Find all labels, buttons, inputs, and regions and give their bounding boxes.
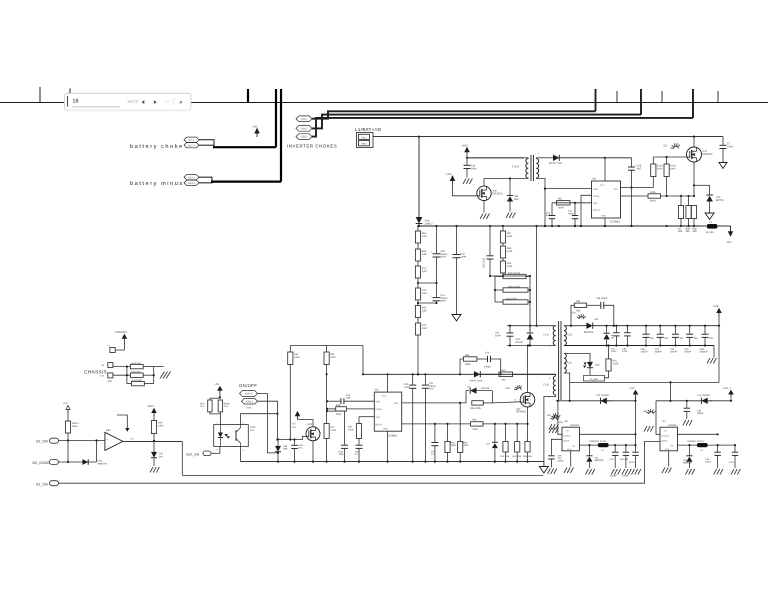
ground C7 xyxy=(719,163,727,169)
svg-text:X51: X51 xyxy=(547,414,552,417)
svg-text:434K: 434K xyxy=(507,250,513,253)
resistor R17 xyxy=(210,397,221,399)
wire W2 bottom xyxy=(59,442,661,484)
resistor R62 xyxy=(459,402,461,404)
IC N2 UC3844 xyxy=(374,392,401,431)
svg-text:ON/Off: ON/Off xyxy=(563,440,570,443)
IC N9 UC3843 xyxy=(592,181,621,218)
toolbar input underline xyxy=(73,106,121,108)
svg-text:Comp: Comp xyxy=(376,408,383,411)
wire T16 pins xyxy=(527,157,529,160)
svg-text:R61: R61 xyxy=(451,442,456,445)
wire N9 pin2 comp xyxy=(581,195,592,226)
svg-text:X22: X22 xyxy=(663,145,668,148)
resistor R124 xyxy=(503,300,528,304)
svg-text:UR1: UR1 xyxy=(253,126,259,129)
svg-text:R106: R106 xyxy=(650,191,656,194)
resistor R47 xyxy=(499,372,513,377)
svg-text:X53: X53 xyxy=(506,387,511,390)
resistor R58 xyxy=(472,401,484,405)
capacitor C50 xyxy=(436,226,438,253)
svg-text:51R5: 51R5 xyxy=(657,167,663,170)
svg-text:100K: 100K xyxy=(348,428,354,431)
corona X51 xyxy=(551,415,554,418)
resistor R42 xyxy=(516,424,518,442)
svg-text:KB-2: KB-2 xyxy=(361,143,367,146)
wire BC_GOOD xyxy=(59,461,83,463)
svg-text:UC3844: UC3844 xyxy=(387,435,397,438)
svg-text:R40: R40 xyxy=(473,419,478,422)
svg-text:23K7: 23K7 xyxy=(422,235,428,238)
svg-text:22K7: 22K7 xyxy=(422,270,428,273)
resistor R41 xyxy=(505,424,507,442)
wire T16-A return xyxy=(540,179,545,227)
svg-text:S1_ON: S1_ON xyxy=(36,482,48,486)
resistor R25 xyxy=(608,346,610,359)
ground return rail xyxy=(713,346,715,358)
wire tick x40 xyxy=(39,87,41,103)
svg-text:100n: 100n xyxy=(346,397,352,400)
resistor R67 xyxy=(502,226,504,231)
wire reg1 input xyxy=(556,400,636,402)
svg-text:100N: 100N xyxy=(568,213,574,216)
svg-text:MBR150: MBR150 xyxy=(683,462,693,465)
svg-text:C38: C38 xyxy=(641,348,646,351)
wire bulk rail xyxy=(417,225,700,227)
resistor R38 xyxy=(327,408,336,410)
corona X24 xyxy=(577,316,580,319)
inductor L3 xyxy=(707,224,718,229)
wire HV to primary xyxy=(536,226,538,326)
corona X50 xyxy=(550,417,553,420)
wire HV rail from KB xyxy=(373,136,723,138)
transistor V2 xyxy=(306,427,320,441)
svg-text:GND: GND xyxy=(383,428,388,431)
capacitor C28 xyxy=(631,158,633,167)
svg-text:N.A.: N.A. xyxy=(247,406,252,409)
svg-text:1BB: 1BB xyxy=(283,448,288,451)
resistor R43 xyxy=(525,442,530,453)
svg-text:L1/BAT+/ID: L1/BAT+/ID xyxy=(355,127,382,132)
capacitor C67 xyxy=(509,326,511,333)
capacitor C64 xyxy=(614,445,616,452)
svg-text:10K0: 10K0 xyxy=(670,167,676,170)
svg-text:N26: N26 xyxy=(595,364,600,367)
net 400V xyxy=(730,226,732,235)
wire N9 out xyxy=(621,187,654,189)
wire bus2 riser xyxy=(640,89,642,115)
svg-text:Vref: Vref xyxy=(376,416,381,419)
resistor R95 xyxy=(417,300,419,306)
svg-text:C63: C63 xyxy=(299,444,304,447)
wire reg1 onoff stub from W1 xyxy=(542,474,544,476)
svg-text:R38: R38 xyxy=(336,404,341,407)
svg-text:N.A.: N.A. xyxy=(250,429,255,432)
svg-text:2K94: 2K94 xyxy=(473,428,479,431)
toolbar text cursor xyxy=(67,96,69,107)
ground N4 xyxy=(668,451,670,467)
wire V22 drain xyxy=(527,346,529,393)
svg-text:C40 2N2: C40 2N2 xyxy=(483,258,486,268)
svg-text:5/272: 5/272 xyxy=(128,99,139,104)
svg-text:STB: STB xyxy=(108,380,113,383)
wire battery-choke riser x276 xyxy=(275,89,277,147)
svg-text:100n: 100n xyxy=(339,453,345,456)
svg-text:N.A.: N.A. xyxy=(299,447,304,450)
resistor R105 xyxy=(664,164,669,177)
svg-text:UC3843: UC3843 xyxy=(610,221,620,224)
wire output rail xyxy=(593,325,719,327)
wire K3N-2 run xyxy=(258,394,279,453)
svg-text:2K94: 2K94 xyxy=(336,413,342,416)
svg-text:23K7: 23K7 xyxy=(422,253,428,256)
svg-text:25V: 25V xyxy=(709,337,714,340)
wire T_ON to V40 gate xyxy=(453,184,478,196)
resistor R34 xyxy=(324,352,329,365)
svg-text:+10V: +10V xyxy=(462,144,469,147)
svg-text:220uF: 220uF xyxy=(705,461,712,464)
svg-text:N5-1: N5-1 xyxy=(106,429,112,432)
svg-text:C44: C44 xyxy=(431,451,436,454)
wire snubber right leg xyxy=(529,276,531,332)
capacitor C42 xyxy=(412,374,414,384)
wire V41 drain xyxy=(693,137,695,147)
capacitor C48r xyxy=(717,445,719,452)
svg-text:3R5: 3R5 xyxy=(678,230,683,233)
svg-text:470N: 470N xyxy=(622,350,628,353)
svg-text:BYV27-200: BYV27-200 xyxy=(549,162,562,165)
svg-text:V21: V21 xyxy=(486,443,491,446)
wire R pair bottom xyxy=(210,412,221,414)
svg-text:BYV27-200: BYV27-200 xyxy=(470,380,483,383)
svg-text:MBR100: MBR100 xyxy=(98,462,108,465)
snubber R56b xyxy=(459,373,461,375)
svg-text:RT/CT: RT/CT xyxy=(593,209,601,212)
diode V24 xyxy=(706,194,713,196)
wire N5 output xyxy=(123,440,182,442)
resistor R30 xyxy=(502,258,504,261)
wire V40 source ground xyxy=(483,201,485,213)
capacitor C37 xyxy=(659,326,661,334)
capacitor C44o xyxy=(615,326,617,333)
svg-text:BLK_ON: BLK_ON xyxy=(187,453,200,457)
svg-text:RT/CT: RT/CT xyxy=(376,424,383,427)
wire reg2 out xyxy=(678,444,698,446)
svg-text:C34: C34 xyxy=(670,348,675,351)
wire T2-B bottom return xyxy=(544,395,556,462)
svg-text:B7GN: B7GN xyxy=(629,461,635,464)
diode V23 xyxy=(529,326,531,333)
wire V40 drain to T16 xyxy=(483,179,485,187)
svg-text:R122 BC78: R122 BC78 xyxy=(508,272,521,275)
svg-text:BY508: BY508 xyxy=(516,341,524,344)
svg-text:C46: C46 xyxy=(339,451,344,454)
wire battery minus loop xyxy=(199,177,212,183)
svg-text:R47: R47 xyxy=(502,369,507,372)
ground V37 xyxy=(150,467,153,473)
wire T2-B top pin xyxy=(555,374,557,376)
corona X53 xyxy=(514,388,517,390)
svg-text:23K7: 23K7 xyxy=(422,327,428,330)
svg-text:NL 35A: NL 35A xyxy=(706,231,714,234)
svg-text:R110 0R0: R110 0R0 xyxy=(131,362,141,365)
wire tick x617 xyxy=(616,91,618,103)
svg-text:BC_GOOD: BC_GOOD xyxy=(33,461,51,465)
IC N4 LM2594 xyxy=(660,427,678,451)
svg-text:400+: 400+ xyxy=(727,241,733,244)
svg-text:S03: S03 xyxy=(514,198,519,201)
svg-text:K23-2: K23-2 xyxy=(188,182,195,185)
transistor V22 IRFP450 xyxy=(520,392,535,407)
svg-text:C33: C33 xyxy=(697,410,702,413)
wire N2 VCC xyxy=(387,374,389,392)
capacitor C52 xyxy=(456,226,458,254)
svg-text:1K2B: 1K2B xyxy=(613,362,619,365)
svg-text:R17: R17 xyxy=(201,403,206,406)
svg-text:MBR150: MBR150 xyxy=(595,459,605,462)
svg-text:ON/Off: ON/Off xyxy=(661,440,668,443)
inductor L1 xyxy=(598,443,609,447)
resistor R68 xyxy=(502,243,504,246)
wire chassis left bus xyxy=(113,366,130,368)
wire V2 source xyxy=(312,441,314,462)
resistor R22B xyxy=(218,400,222,412)
svg-text:battery minus: battery minus xyxy=(130,180,184,187)
transistor V41 IRFP460 xyxy=(687,147,702,162)
ground N8 xyxy=(570,451,572,467)
svg-text:N.A.: N.A. xyxy=(224,405,229,408)
capacitor C44 xyxy=(434,424,436,442)
resistor R107 sense xyxy=(680,196,682,206)
svg-text:BZT03: BZT03 xyxy=(716,199,724,202)
svg-text:100P: 100P xyxy=(495,334,501,337)
wire +5V node xyxy=(219,394,221,399)
svg-text:N.A.: N.A. xyxy=(292,426,297,429)
svg-text:450V: 450V xyxy=(441,256,447,259)
svg-text:4.7uF: 4.7uF xyxy=(729,461,735,464)
transformer T16-A winding xyxy=(536,159,538,179)
diode V27 xyxy=(540,157,553,159)
wire V22 source xyxy=(527,407,529,442)
wire T2-A top xyxy=(507,325,556,327)
svg-text:220UF: 220UF xyxy=(670,351,677,354)
svg-text:R09: R09 xyxy=(693,228,698,231)
connector K9-2 xyxy=(296,134,312,140)
wire V41 source xyxy=(693,162,695,196)
capacitor C38 xyxy=(645,326,647,334)
optocoupler V130 xyxy=(214,425,249,447)
capacitor C74 xyxy=(477,358,488,360)
svg-text:C74: C74 xyxy=(485,352,490,355)
wire +A rail link xyxy=(290,345,363,347)
capacitor C33 xyxy=(689,326,691,334)
svg-text:VFB: VFB xyxy=(593,188,598,191)
svg-text:470pF: 470pF xyxy=(484,366,491,369)
svg-text:T2-E: T2-E xyxy=(567,362,573,365)
svg-text:···: ··· xyxy=(165,99,170,104)
svg-text:battery choke: battery choke xyxy=(130,143,184,150)
wire reg1 out rail xyxy=(609,444,636,446)
ground C52 xyxy=(452,315,461,322)
svg-text:4N7: 4N7 xyxy=(637,167,642,170)
toolbar next button xyxy=(154,100,157,104)
wire bus3 riser xyxy=(692,89,694,118)
capacitor C65 xyxy=(635,397,637,451)
zener V35 xyxy=(606,326,608,334)
capacitor C35r xyxy=(734,445,736,452)
resistor R61 xyxy=(447,424,449,442)
wire K3N-1 run xyxy=(258,401,278,439)
svg-text:R62: R62 xyxy=(463,442,468,445)
resistor R111 xyxy=(130,373,143,377)
wire N9 pin3 vref xyxy=(552,202,592,204)
resistor R112 xyxy=(132,381,145,385)
wire opto pin3 ground rail xyxy=(240,447,242,462)
svg-text:INVERTER CHOKES: INVERTER CHOKES xyxy=(287,143,337,148)
svg-text:1R8: 1R8 xyxy=(576,310,581,313)
diode V13 xyxy=(700,398,702,404)
svg-text:10K2: 10K2 xyxy=(158,424,164,427)
svg-text:Vin: Vin xyxy=(664,430,667,433)
svg-text:Feedback: Feedback xyxy=(661,435,669,438)
svg-text:T_ON: T_ON xyxy=(445,173,452,176)
svg-text:7K06: 7K06 xyxy=(451,444,457,447)
svg-text:GND: GND xyxy=(601,215,606,218)
svg-text:434K: 434K xyxy=(507,235,513,238)
search toolbar xyxy=(64,93,190,110)
diode V4 xyxy=(474,371,480,377)
svg-text:K27-1: K27-1 xyxy=(188,144,195,147)
wire chassis right bus xyxy=(143,366,154,368)
wire reg1 out xyxy=(580,444,599,446)
wire V2 gate xyxy=(278,436,307,439)
capacitor C40 xyxy=(489,226,491,255)
inductor L4 xyxy=(697,443,708,447)
ground C49 xyxy=(463,179,466,185)
transformer T16 core xyxy=(530,155,532,181)
wire T2-A bottom xyxy=(507,345,556,347)
svg-text:CHASSIS: CHASSIS xyxy=(115,331,127,334)
svg-text:ON/OFF: ON/OFF xyxy=(239,383,257,388)
wire choke bus 2 xyxy=(312,115,641,129)
capacitor C11 xyxy=(574,203,576,215)
capacitor C47 xyxy=(358,439,360,445)
wire battery-minus riser x281 xyxy=(280,89,282,182)
svg-text:4N7: 4N7 xyxy=(546,214,551,217)
wire reg2 out rail xyxy=(708,444,735,446)
svg-text:2200F: 2200F xyxy=(622,475,629,478)
resistor R122 xyxy=(494,276,496,302)
ground C68 xyxy=(547,469,550,475)
wire T2-D to V34 xyxy=(564,325,587,327)
wire chassis flag xyxy=(115,341,124,350)
svg-text:V13 1N4004: V13 1N4004 xyxy=(697,394,710,397)
svg-text:V34: V34 xyxy=(594,318,599,321)
svg-text:220UF: 220UF xyxy=(641,351,648,354)
svg-text:A3V3: A3V3 xyxy=(148,405,155,408)
resistor R33 xyxy=(288,352,293,365)
capacitor C68 xyxy=(548,455,555,457)
wire source to V24 xyxy=(694,184,710,186)
diode V18 xyxy=(82,459,88,465)
capacitor C46 xyxy=(327,410,344,412)
wire battery choke to riser xyxy=(213,146,276,148)
capacitor C66 xyxy=(625,445,627,452)
svg-text:18: 18 xyxy=(73,98,79,104)
svg-text:V10 1N4004: V10 1N4004 xyxy=(596,394,609,397)
svg-text:25V: 25V xyxy=(694,337,699,340)
svg-text:N9: N9 xyxy=(593,177,597,180)
resistor R40 xyxy=(471,422,484,426)
resistor R79 xyxy=(417,318,419,324)
wire V1A to bulk rail xyxy=(418,224,420,227)
capacitor C49o xyxy=(626,326,628,333)
corona X52 xyxy=(646,411,649,414)
svg-text:1N4148: 1N4148 xyxy=(481,387,490,390)
svg-text:3R5: 3R5 xyxy=(693,230,698,233)
resistor R21 xyxy=(324,424,329,439)
svg-text:Vin: Vin xyxy=(566,430,569,433)
svg-text:Vref: Vref xyxy=(593,202,598,205)
svg-text:BUR520: BUR520 xyxy=(584,331,594,334)
svg-text:+52V_2: +52V_2 xyxy=(723,387,732,390)
resistor R109 sense xyxy=(691,206,696,219)
wire snubber top node xyxy=(490,275,530,277)
transformer T2-D winding xyxy=(564,326,566,346)
svg-text:61R4: 61R4 xyxy=(72,425,78,428)
svg-text:100N: 100N xyxy=(471,167,477,170)
wire V2 drain xyxy=(298,420,314,427)
resistor R108 sense xyxy=(688,196,690,206)
zener V21 xyxy=(494,424,496,442)
svg-text:C38: C38 xyxy=(700,348,705,351)
svg-text:61R8: 61R8 xyxy=(650,200,656,203)
ground V24 xyxy=(705,213,714,220)
svg-text:T16-B: T16-B xyxy=(512,166,519,169)
wire battery minus to riser xyxy=(211,181,281,183)
svg-text:3R5: 3R5 xyxy=(686,230,691,233)
diode V1A xyxy=(418,137,420,217)
wire R25 to K_A01 xyxy=(605,371,609,378)
net +52V_2 xyxy=(730,397,732,401)
svg-text:150K: 150K xyxy=(330,356,336,359)
svg-text:R42 3R5: R42 3R5 xyxy=(513,455,522,458)
svg-text:K7-1: K7-1 xyxy=(189,139,195,142)
svg-text:+32V: +32V xyxy=(629,387,635,390)
resistor R71 xyxy=(417,261,419,266)
connector C1 xyxy=(110,348,115,353)
svg-text:R123 1K78: R123 1K78 xyxy=(508,286,520,289)
svg-text:27K6: 27K6 xyxy=(331,429,337,432)
resistor R110 xyxy=(130,364,143,368)
svg-text:K_A01: K_A01 xyxy=(590,378,598,381)
wire N9 VCC top xyxy=(604,158,606,181)
svg-text:Feedback: Feedback xyxy=(563,435,571,438)
svg-text:C66 C65: C66 C65 xyxy=(620,458,629,461)
resistor R37 xyxy=(358,417,360,424)
toolbar prev button xyxy=(142,100,145,104)
svg-text:GND: GND xyxy=(567,448,572,451)
diode V10 xyxy=(600,398,602,404)
connector K3N-2 xyxy=(240,391,258,397)
svg-text:45c5: 45c5 xyxy=(463,444,469,447)
wire T2-E bottom to regulators xyxy=(564,373,570,401)
svg-text:C48 470pF: C48 470pF xyxy=(596,297,608,300)
wire N2 sense line xyxy=(402,423,471,425)
wire top horizontal rail xyxy=(0,102,768,104)
resistor R106 xyxy=(621,195,649,197)
capacitor C13 xyxy=(551,203,553,215)
